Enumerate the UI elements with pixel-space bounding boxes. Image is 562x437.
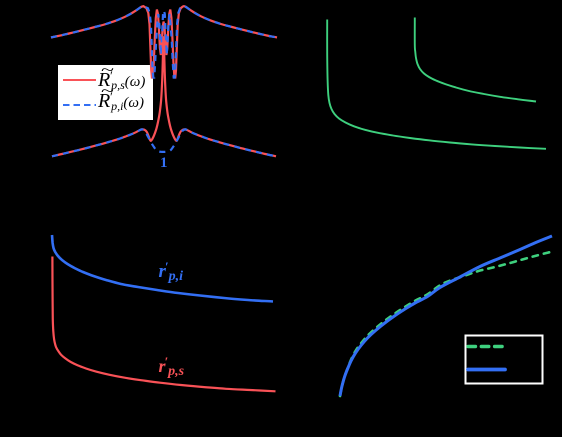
curve rpi (blue) bbox=[52, 235, 273, 302]
green curve A (left) bbox=[327, 20, 546, 149]
curve rps (red) bbox=[52, 257, 275, 392]
green curve B (right) bbox=[415, 18, 536, 102]
legend box (top-left) bbox=[58, 65, 153, 120]
legend label Rpi bbox=[98, 91, 144, 111]
legend red line sample bbox=[63, 79, 96, 81]
svg-text:1: 1 bbox=[160, 155, 168, 171]
legend label Rps bbox=[98, 70, 145, 90]
label rpi (blue) bbox=[159, 262, 183, 281]
curve Rps upper branch (red solid) bbox=[51, 6, 277, 77]
curve Rpi upper branch (blue dashed) bbox=[51, 6, 277, 77]
blue solid curve bbox=[340, 236, 552, 396]
green dashed curve bbox=[340, 252, 552, 396]
legend frame (bottom-right) bbox=[466, 336, 543, 384]
legend blue dashed sample bbox=[63, 104, 96, 106]
curve Rpi lower branch with central dip (blue dashed) bbox=[52, 129, 276, 156]
legend blue solid sample bbox=[468, 368, 505, 372]
curve Rps lower branch with central spike (red solid) bbox=[52, 37, 276, 156]
label rps (red) bbox=[159, 357, 185, 376]
legend green dashed sample bbox=[468, 345, 503, 348]
